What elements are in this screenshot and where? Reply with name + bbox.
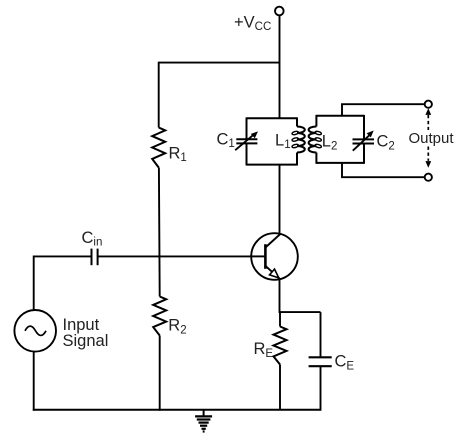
label CE (335, 352, 355, 372)
label C2 (377, 133, 395, 153)
svg-text:C2: C2 (377, 133, 395, 153)
wire RE bottom (279, 365, 281, 410)
svg-text:Output: Output (409, 130, 455, 147)
wire R1 to R2 (crosses base wire) (158, 168, 161, 297)
svg-text:L1: L1 (275, 131, 291, 151)
capacitor Cin (92, 249, 98, 266)
label Cin (82, 229, 103, 249)
resistor R2 (153, 297, 166, 336)
wire top horizontal to R1 branch (159, 62, 280, 64)
wire input to Cin (34, 255, 92, 257)
label RE (254, 340, 274, 360)
wire source bottom (33, 351, 35, 411)
svg-text:C1: C1 (217, 130, 235, 150)
label L2 (322, 133, 338, 153)
wire emitter (279, 279, 281, 313)
source input signal (14, 310, 56, 352)
wire R2 bottom (159, 336, 161, 411)
svg-text:+VCC: +VCC (234, 13, 271, 33)
wire CE top (320, 312, 322, 357)
+Vcc supply terminal (275, 7, 284, 16)
svg-text:L2: L2 (322, 133, 338, 153)
resistor R1 (152, 128, 165, 168)
tank 1 loop (247, 117, 298, 165)
wire RE top (279, 312, 281, 326)
wire R1 branch upper (158, 62, 160, 128)
svg-text:CE: CE (335, 352, 355, 372)
wire Cin to base (98, 255, 266, 257)
ground (195, 410, 212, 432)
svg-text:Signal: Signal (63, 332, 109, 350)
svg-text:Cin: Cin (82, 229, 103, 249)
label Output (409, 130, 455, 147)
output terminal top (425, 101, 432, 108)
wire tank2 to output top (342, 104, 425, 116)
inductor L1 (292, 127, 305, 153)
svg-text:RE: RE (254, 340, 274, 360)
capacitor C1 (235, 131, 258, 150)
svg-text:R2: R2 (168, 317, 186, 337)
label Input Signal (63, 316, 109, 350)
output terminal bottom (425, 174, 432, 181)
svg-text:R1: R1 (169, 144, 187, 164)
wire collector (279, 165, 281, 235)
label R1 (169, 144, 187, 164)
wire bottom rail (33, 409, 321, 411)
label +Vcc (234, 13, 271, 33)
wire tank2 to output bottom (342, 163, 425, 177)
label R2 (168, 317, 186, 337)
wire Vcc vertical (279, 15, 281, 118)
label L1 (275, 131, 291, 151)
capacitor CE (309, 357, 332, 366)
capacitor C2 (353, 131, 375, 151)
resistor RE (274, 327, 287, 365)
output direction arrows (425, 108, 431, 168)
inductor L2 (309, 127, 322, 153)
tank 2 loop (316, 115, 364, 164)
wire source top (33, 256, 35, 311)
transistor Q1 (251, 233, 298, 280)
wire emitter branch to CE (280, 311, 321, 313)
label C1 (217, 130, 235, 150)
wire CE bottom (320, 366, 322, 411)
